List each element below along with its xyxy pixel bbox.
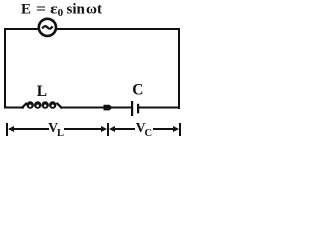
svg-text:0: 0 <box>58 7 64 19</box>
wire left vertical <box>4 28 6 108</box>
wire capacitor to right wire <box>139 107 180 109</box>
wire top right segment <box>56 28 180 30</box>
source label E = e0 sin wt <box>21 2 102 19</box>
ac source E <box>39 19 56 36</box>
dimension line VL with arrows <box>8 126 107 132</box>
capacitor C <box>131 101 139 116</box>
wire bottom middle segment <box>60 107 131 109</box>
svg-text:E: E <box>21 2 31 18</box>
wire bottom left segment <box>4 107 24 109</box>
svg-text:C: C <box>132 82 143 99</box>
inductor L <box>22 101 63 108</box>
dimension line VC with arrows <box>109 126 179 132</box>
dimension tick right <box>179 123 181 136</box>
svg-text:ωt: ωt <box>86 2 102 18</box>
svg-text:C: C <box>145 128 153 139</box>
wire right vertical <box>178 28 180 109</box>
svg-text:L: L <box>37 83 47 100</box>
current arrow <box>104 105 113 111</box>
dimension tick left <box>6 123 8 136</box>
wire top left segment <box>4 28 39 30</box>
dimension tick middle <box>107 123 109 136</box>
svg-text:sin: sin <box>67 2 86 18</box>
svg-text:L: L <box>57 128 64 139</box>
svg-text:=: = <box>36 2 46 18</box>
